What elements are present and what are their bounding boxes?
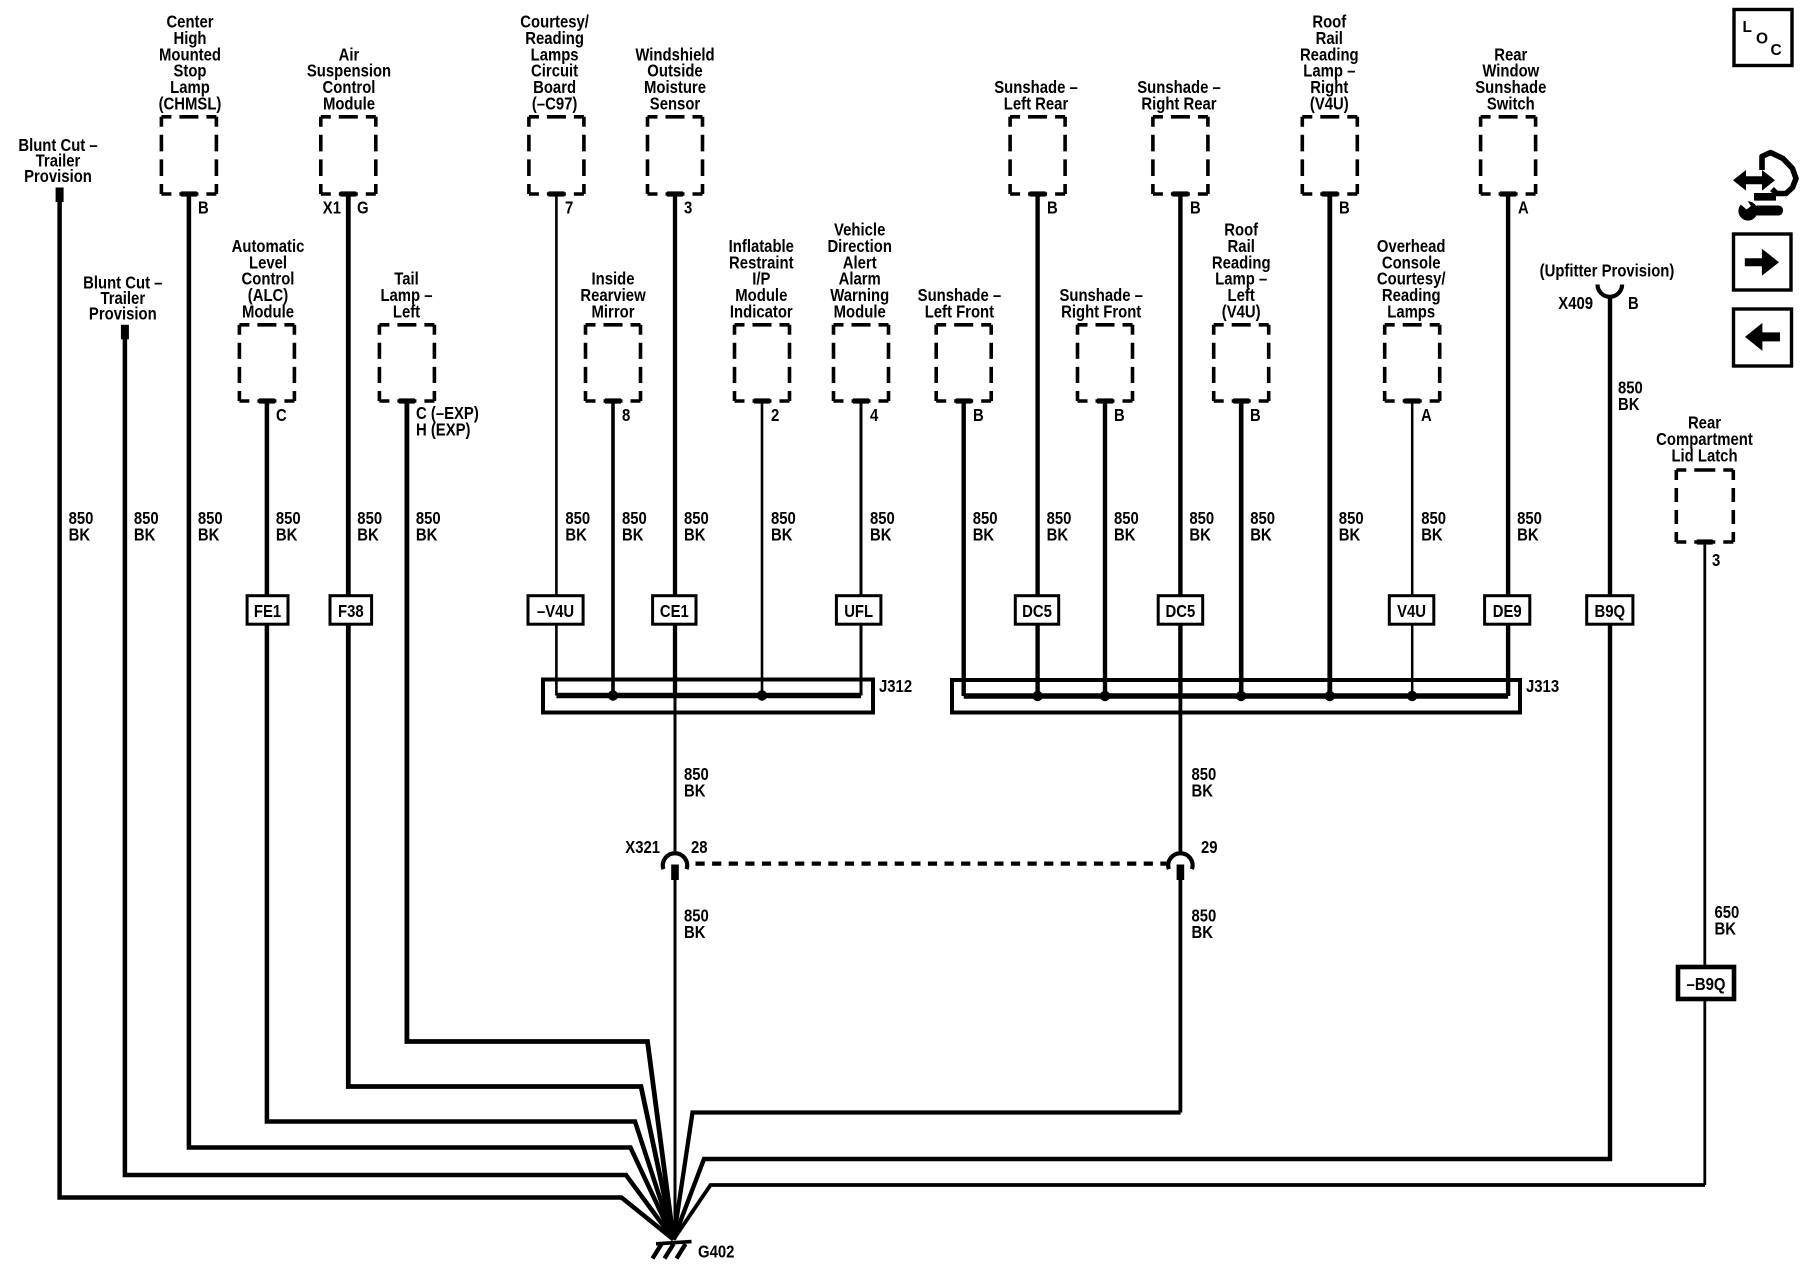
svg-text:BK: BK: [684, 525, 706, 545]
svg-text:V4U: V4U: [1397, 601, 1426, 621]
label 850 BK at x=406.9: [416, 508, 441, 545]
junction dot J313/SunRFront: [1100, 691, 1110, 701]
svg-text:BK: BK: [1250, 525, 1272, 545]
svg-text:BK: BK: [771, 525, 793, 545]
dashed connector link X321 28-29: [696, 861, 1169, 865]
svg-text:Left Rear: Left Rear: [1004, 94, 1069, 114]
inline connector label -B9Q: [1678, 967, 1734, 999]
svg-text:B9Q: B9Q: [1595, 601, 1626, 621]
connector X409 (Upfitter Provision): [1540, 261, 1675, 314]
wire 850 BK J312 output to X321 pin 28: [674, 696, 677, 855]
label 850 BK at x=613: [622, 508, 647, 545]
svg-text:A: A: [1518, 198, 1529, 218]
svg-text:(Upfitter Provision): (Upfitter Provision): [1540, 261, 1675, 281]
svg-text:7: 7: [565, 198, 573, 218]
svg-text:C: C: [276, 405, 287, 425]
svg-text:DC5: DC5: [1166, 601, 1196, 621]
svg-text:Module: Module: [242, 302, 294, 322]
svg-text:X321: X321: [625, 837, 660, 857]
connector: Sunshade – Left Rear: [994, 77, 1078, 217]
wire 850 BK Inflatable Restraint to J312: [761, 401, 764, 696]
svg-text:BK: BK: [416, 525, 438, 545]
label 850 BK below X321-28: [684, 906, 709, 943]
legend icon: left arrow: [1734, 309, 1792, 366]
wire 850 BK X321 pin 28 to G402: [674, 866, 677, 1240]
label 850 BK at x=1412.2: [1421, 508, 1446, 545]
connector: Courtesy/Reading Lamps Circuit Board (–C97): [520, 12, 589, 218]
ground G402: [653, 1242, 735, 1262]
wire 850 BK X409-B to G402: [674, 297, 1611, 1240]
inline connector label DC5 (right): [1158, 596, 1203, 625]
inline connector label DC5 (left): [1015, 596, 1058, 625]
svg-text:B: B: [1047, 198, 1058, 218]
wire 650 BK Lid Latch to G402 horizontal: [674, 1185, 1706, 1240]
svg-text:BK: BK: [276, 525, 298, 545]
svg-text:BK: BK: [870, 525, 892, 545]
svg-text:BK: BK: [1618, 394, 1640, 414]
connector: Rear Window Sunshade Switch: [1475, 44, 1546, 217]
wire 850 BK CHMSL-B to G402: [189, 194, 674, 1240]
junction dot J312/Inflatable: [757, 690, 767, 700]
svg-text:(V4U): (V4U): [1222, 302, 1261, 322]
svg-text:BK: BK: [357, 525, 379, 545]
junction dot J313/SunLRear: [1032, 691, 1042, 701]
label 850 BK at x=124.9: [134, 508, 159, 545]
connector: Sunshade – Right Front: [1059, 285, 1143, 425]
svg-text:BK: BK: [69, 525, 91, 545]
svg-text:H (EXP): H (EXP): [416, 420, 471, 440]
svg-text:G402: G402: [698, 1242, 735, 1262]
wire 850 BK Windshield Moisture Sensor through J312: [673, 194, 677, 696]
label 650 BK lid latch wire: [1715, 902, 1740, 939]
junction dot J313/Overhead: [1407, 691, 1417, 701]
inline connector label -V4U: [528, 596, 583, 625]
svg-text:BK: BK: [1047, 525, 1069, 545]
label 850 BK X409 wire: [1618, 378, 1643, 415]
splice pack J312: [543, 676, 912, 713]
svg-text:B: B: [198, 198, 209, 218]
svg-text:BK: BK: [565, 525, 587, 545]
svg-text:Provision: Provision: [24, 166, 92, 186]
wire 850 BK Courtesy/Reading C97 to J312: [555, 194, 558, 696]
label 850 BK below X321-29: [1192, 906, 1217, 943]
svg-text:Right Front: Right Front: [1061, 302, 1141, 322]
svg-text:F38: F38: [338, 601, 364, 621]
label 850 BK at x=188.9: [198, 508, 223, 545]
connector: Center High Mounted Stop Lamp (CHMSL): [159, 12, 222, 218]
svg-text:L: L: [1743, 19, 1752, 36]
svg-text:B: B: [1339, 198, 1350, 218]
connector: Automatic Level Control (ALC) Module: [232, 236, 305, 425]
label 850 BK at x=266.9: [276, 508, 301, 545]
label 850 BK at x=762: [771, 508, 796, 545]
svg-text:B: B: [1190, 198, 1201, 218]
blunt cut - trailer provision #2: [83, 272, 163, 339]
svg-text:Module: Module: [323, 94, 375, 114]
svg-text:X409: X409: [1558, 293, 1593, 313]
svg-text:BK: BK: [684, 922, 706, 942]
legend icon: right arrow: [1734, 234, 1792, 290]
connector: Roof Rail Reading Lamp – Right (V4U): [1300, 12, 1359, 218]
svg-text:BK: BK: [622, 525, 644, 545]
svg-text:J312: J312: [879, 676, 912, 696]
label 850 BK at x=675: [684, 508, 709, 545]
svg-text:(V4U): (V4U): [1310, 94, 1349, 114]
inline connector label B9Q: [1587, 596, 1633, 625]
wire 850 BK Overhead Console to J313: [1411, 401, 1414, 696]
label 850 BK at x=59.6: [69, 508, 94, 545]
wire 650 BK Lid Latch-3 down: [1703, 542, 1706, 1185]
inline connector label DE9: [1485, 596, 1530, 625]
svg-text:FE1: FE1: [254, 601, 282, 621]
svg-text:B: B: [973, 405, 984, 425]
wire 850 BK Air Suspension X1-G to G402: [348, 194, 673, 1240]
wire 850 BK Vehicle Direction Alarm to J312: [860, 401, 863, 696]
wire 850 BK ALC-C to G402: [267, 401, 674, 1240]
svg-text:BK: BK: [1192, 922, 1214, 942]
svg-text:UFL: UFL: [844, 601, 873, 621]
connector: Vehicle Direction Alert Alarm Warning Module: [827, 220, 892, 426]
wire 850 BK Roof Rail Lamp Right to J313: [1327, 194, 1332, 696]
svg-text:CE1: CE1: [660, 601, 689, 621]
svg-text:(CHMSL): (CHMSL): [159, 94, 222, 114]
inline connector label V4U: [1389, 596, 1434, 625]
label 850 BK at x=1241.2: [1250, 508, 1275, 545]
inline connector label CE1: [653, 596, 696, 625]
svg-text:G: G: [357, 198, 369, 218]
connector: Inside Rearview Mirror: [580, 269, 646, 425]
connector: Sunshade – Right Rear: [1137, 77, 1221, 217]
svg-text:3: 3: [1712, 550, 1721, 570]
label 850 BK at x=861: [870, 508, 895, 545]
svg-text:X1: X1: [323, 198, 341, 218]
svg-text:Lid Latch: Lid Latch: [1671, 446, 1737, 466]
label 850 BK at x=1329.8: [1339, 508, 1364, 545]
svg-text:29: 29: [1201, 837, 1218, 857]
junction dot J313/RoofLeft: [1236, 691, 1246, 701]
connector: Inflatable Restraint I/P Module Indicator: [729, 236, 795, 425]
wire 850 BK Tail Lamp Left to G402: [407, 401, 674, 1240]
connector: Tail Lamp – Left: [379, 269, 478, 440]
svg-text:Sensor: Sensor: [650, 94, 701, 114]
svg-text:DE9: DE9: [1493, 601, 1522, 621]
connector: Sunshade – Left Front: [918, 285, 1002, 425]
junction dot J312/Rearview: [608, 690, 618, 700]
label 850 BK above X321-29: [1192, 764, 1217, 801]
connector X321 pin 28: [625, 837, 707, 880]
splice pack J313: [952, 676, 1559, 713]
connector: Windshield Outside Moisture Sensor: [635, 44, 714, 217]
wire 850 BK X321 pin 29 to G402 horizontal: [674, 1113, 1181, 1240]
label 850 BK at x=1105: [1114, 508, 1139, 545]
svg-text:Left Front: Left Front: [925, 302, 995, 322]
label 850 BK at x=348.3: [357, 508, 382, 545]
connector X321 pin 29: [1168, 837, 1218, 880]
svg-text:BK: BK: [134, 525, 156, 545]
svg-text:BK: BK: [1339, 525, 1361, 545]
wire 850 BK Sunshade Right Rear through J313: [1178, 194, 1182, 696]
svg-text:Module: Module: [834, 302, 886, 322]
wire 850 BK Sunshade Left Front to J313: [962, 401, 966, 696]
svg-text:J313: J313: [1526, 676, 1559, 696]
svg-text:BK: BK: [1517, 525, 1539, 545]
svg-text:Left: Left: [393, 302, 420, 322]
svg-text:Lamps: Lamps: [1387, 302, 1435, 322]
svg-text:BK: BK: [198, 525, 220, 545]
svg-text:B: B: [1114, 405, 1125, 425]
svg-text:BK: BK: [684, 781, 706, 801]
svg-text:8: 8: [622, 405, 631, 425]
connector: Rear Compartment Lid Latch: [1656, 413, 1753, 570]
wire 850 BK Inside Rearview Mirror to J312: [611, 401, 615, 696]
connector: Air Suspension Control Module: [307, 44, 391, 217]
wire 850 BK J313 output to X321 pin 29: [1179, 696, 1183, 854]
inline connector label F38: [330, 596, 372, 625]
wire 850 BK X321 pin 29 down: [1179, 866, 1183, 1113]
wire 850 BK Roof Rail Lamp Left to J313: [1239, 401, 1244, 696]
svg-text:B: B: [1628, 293, 1639, 313]
svg-text:C: C: [1771, 42, 1782, 59]
junction dot J313/RoofRight: [1325, 691, 1335, 701]
wire 850 BK Sunshade Right Front to J313: [1103, 401, 1107, 696]
svg-text:BK: BK: [973, 525, 995, 545]
svg-text:2: 2: [771, 405, 780, 425]
svg-text:BK: BK: [1114, 525, 1136, 545]
svg-text:–B9Q: –B9Q: [1687, 974, 1726, 994]
svg-text:Right Rear: Right Rear: [1141, 94, 1216, 114]
svg-text:4: 4: [870, 405, 879, 425]
icon: double arrow with wrench: [1733, 153, 1796, 221]
connector: Overhead Console Courtesy/Reading Lamps: [1377, 236, 1446, 425]
connector: Roof Rail Reading Lamp – Left (V4U): [1212, 220, 1271, 426]
blunt cut - trailer provision #1: [18, 135, 98, 202]
svg-text:BK: BK: [1421, 525, 1443, 545]
wire 850 BK Sunshade Left Rear to J313: [1035, 194, 1039, 696]
svg-text:28: 28: [691, 837, 708, 857]
svg-text:Provision: Provision: [89, 304, 157, 324]
label 850 BK at x=1037.6: [1047, 508, 1072, 545]
svg-text:–V4U: –V4U: [537, 601, 574, 621]
svg-text:3: 3: [684, 198, 693, 218]
svg-text:O: O: [1756, 31, 1768, 48]
wire 850 BK blunt cut #1 to G402: [60, 196, 674, 1240]
svg-text:A: A: [1421, 405, 1432, 425]
svg-text:DC5: DC5: [1022, 601, 1052, 621]
inline connector label FE1: [247, 596, 288, 625]
label 850 BK at x=963.7: [973, 508, 998, 545]
inline connector label UFL: [836, 596, 881, 625]
svg-text:B: B: [1250, 405, 1261, 425]
svg-text:Switch: Switch: [1487, 94, 1535, 114]
svg-text:BK: BK: [1189, 525, 1211, 545]
label 850 BK at x=1180.4: [1189, 508, 1214, 545]
svg-text:Indicator: Indicator: [730, 302, 793, 322]
svg-text:BK: BK: [1192, 781, 1214, 801]
svg-text:(–C97): (–C97): [532, 94, 578, 114]
label 850 BK at x=1508.1: [1517, 508, 1542, 545]
legend box L-O-C: [1734, 10, 1792, 66]
svg-text:BK: BK: [1715, 919, 1737, 939]
label 850 BK at x=556.4: [565, 508, 590, 545]
label 850 BK above X321-28: [684, 764, 709, 801]
svg-text:Mirror: Mirror: [592, 302, 635, 322]
wire 850 BK Rear Window Sunshade Switch to J313: [1506, 194, 1510, 696]
wire 850 BK blunt cut #2 to G402: [125, 332, 674, 1240]
